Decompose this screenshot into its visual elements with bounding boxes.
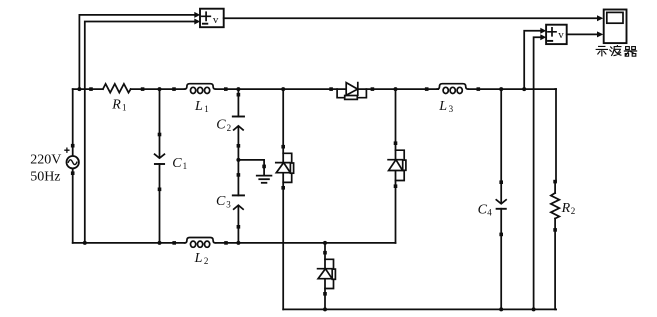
label L1 xyxy=(194,99,209,114)
node C2-C3 midpoint junction xyxy=(236,158,240,162)
capacitor C3 xyxy=(233,160,244,245)
label R2 xyxy=(561,201,576,216)
wire voltmeter2 minus lead xyxy=(532,34,547,311)
label 50Hz xyxy=(30,169,60,184)
svg-text:v: v xyxy=(213,14,219,26)
svg-text:L: L xyxy=(194,251,203,266)
node C2 branch junction top xyxy=(236,87,240,91)
svg-text:3: 3 xyxy=(449,104,454,114)
svg-text:L: L xyxy=(438,99,447,114)
node thyristor T1 top junction xyxy=(281,87,285,91)
wire voltmeter2 output to scope xyxy=(567,31,604,37)
wire left source branch xyxy=(72,89,74,243)
inductor L1 xyxy=(172,84,227,94)
svg-text:1: 1 xyxy=(122,103,127,113)
svg-text:220V: 220V xyxy=(30,152,61,167)
label L3 xyxy=(438,99,453,114)
node C1 branch junction top xyxy=(158,87,162,91)
label C3 xyxy=(216,194,231,209)
wire top rail xyxy=(73,88,556,90)
wire voltmeter1 plus lead xyxy=(77,12,200,91)
svg-text:C: C xyxy=(478,202,488,217)
svg-text:50Hz: 50Hz xyxy=(30,169,60,184)
svg-text:C: C xyxy=(216,118,226,133)
ground xyxy=(257,165,272,183)
svg-text:2: 2 xyxy=(227,123,232,133)
node voltmeter2 plus junction xyxy=(522,87,526,91)
svg-text:2: 2 xyxy=(571,206,576,216)
svg-text:L: L xyxy=(194,99,203,114)
inductor L2 xyxy=(172,238,227,248)
wire R2 bottom lead xyxy=(554,89,557,309)
wire T1 bottom lead to bottom rail xyxy=(282,188,284,310)
wire voltmeter2 plus lead xyxy=(524,28,546,89)
label L2 xyxy=(194,251,209,266)
label C4 xyxy=(478,202,493,217)
inductor L3 xyxy=(425,84,480,94)
svg-text:C: C xyxy=(216,194,226,209)
voltmeter U2 xyxy=(546,25,567,44)
wire ground tap xyxy=(238,160,264,168)
svg-text:4: 4 xyxy=(487,208,492,218)
svg-text:v: v xyxy=(558,29,564,41)
thyristor T1 xyxy=(276,145,294,190)
scope block xyxy=(604,10,627,44)
label 220V xyxy=(30,152,61,167)
node thyristor T2 top junction xyxy=(394,87,398,91)
wire T3 bottom lead xyxy=(323,294,327,312)
capacitor C1 xyxy=(155,89,165,245)
node C4 branch junction top xyxy=(499,87,503,91)
label C1 xyxy=(172,156,187,171)
diode D1 xyxy=(329,83,374,100)
label C2 xyxy=(216,118,231,133)
wire T1 top lead xyxy=(282,89,284,147)
wire bottom rail xyxy=(283,308,556,310)
svg-text:2: 2 xyxy=(204,256,209,266)
wire T2 top lead xyxy=(395,89,397,143)
node thyristor T3 top junction xyxy=(323,241,327,245)
label R1 xyxy=(111,97,126,112)
svg-text:C: C xyxy=(172,156,182,171)
wire voltmeter1 minus lead xyxy=(83,19,200,245)
svg-text:1: 1 xyxy=(204,104,209,114)
AC source 220V 50Hz xyxy=(65,144,79,175)
svg-text:3: 3 xyxy=(226,199,231,209)
wire R2 drop from top rail xyxy=(555,89,557,182)
thyristor T2 xyxy=(388,141,406,188)
resistor R2 xyxy=(551,180,559,232)
resistor R1 xyxy=(89,84,144,93)
voltmeter U1 xyxy=(200,9,224,28)
svg-text:R: R xyxy=(111,97,121,112)
wire bottom-mid rail xyxy=(73,242,396,244)
wire T3 top lead xyxy=(324,243,326,253)
svg-text:1: 1 xyxy=(183,161,188,171)
capacitor C4 xyxy=(496,89,506,311)
capacitor C2 xyxy=(233,89,244,160)
thyristor T3 xyxy=(318,251,336,296)
label scope (shiboqi) xyxy=(596,46,636,57)
wire voltmeter1 output to scope xyxy=(224,15,604,21)
svg-text:R: R xyxy=(561,201,571,216)
wire T2 bottom lead to mid rail xyxy=(395,186,397,243)
